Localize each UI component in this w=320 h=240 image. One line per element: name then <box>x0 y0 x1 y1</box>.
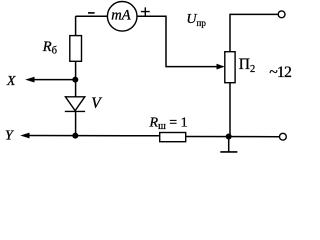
milliammeter mA <box>107 1 137 31</box>
wire resistor bottom to node X <box>75 61 77 79</box>
wire top-left vertical into resistor <box>75 16 77 35</box>
ground bar <box>220 151 237 153</box>
minus polarity label <box>88 12 95 14</box>
wire top-left horizontal to meter <box>76 15 108 17</box>
node Y junction dot <box>72 133 78 139</box>
node X arrowhead <box>25 77 34 83</box>
node X arrow line <box>32 79 76 81</box>
wire top-right terminal to potentiometer top <box>230 14 278 51</box>
svg-text:Rб: Rб <box>42 39 57 56</box>
wire Rsh to right terminal <box>186 136 280 138</box>
wire diode to node Y <box>75 112 77 136</box>
node Y arrowhead <box>20 133 29 139</box>
wire meter to right corner and down to wiper arrow <box>137 16 219 66</box>
svg-text:V: V <box>91 95 102 112</box>
wire potentiometer bottom to ground junction <box>229 83 231 137</box>
plus polarity label <box>141 7 150 15</box>
svg-text:X: X <box>6 74 16 89</box>
node X junction dot <box>72 77 78 83</box>
svg-text:mA: mA <box>111 8 130 24</box>
potentiometer П2 <box>225 52 235 83</box>
svg-text:Uпр: Uпр <box>186 12 206 28</box>
wiper arrowhead into П2 <box>217 64 225 70</box>
junction dot at ground node <box>226 134 232 140</box>
node Y arrow line <box>27 135 160 137</box>
diode V <box>65 97 85 112</box>
svg-text:Rш = 1: Rш = 1 <box>149 116 188 133</box>
svg-text:~12: ~12 <box>269 64 292 81</box>
resistor R6 (base resistor) <box>70 36 82 62</box>
svg-text:Y: Y <box>5 129 15 144</box>
shunt resistor Rsh <box>160 133 186 142</box>
terminal top-right <box>278 11 285 18</box>
ground stub <box>228 137 230 152</box>
terminal bottom-right <box>280 133 287 140</box>
wire node X to diode <box>75 80 77 97</box>
svg-text:П2: П2 <box>239 56 255 75</box>
